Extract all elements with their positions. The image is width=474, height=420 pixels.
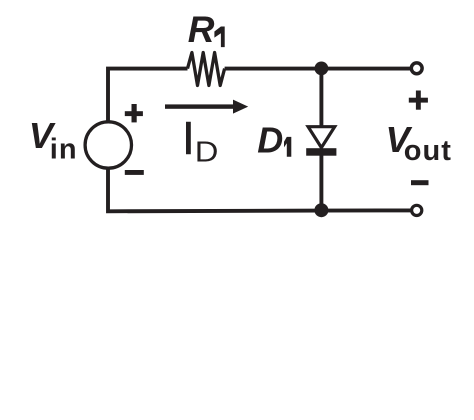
svg-text:in: in bbox=[50, 134, 78, 166]
svg-text:I: I bbox=[182, 112, 195, 164]
svg-text:D: D bbox=[257, 119, 283, 160]
svg-text:out: out bbox=[404, 135, 452, 167]
svg-text:R: R bbox=[188, 9, 215, 50]
svg-text:D: D bbox=[195, 135, 219, 168]
